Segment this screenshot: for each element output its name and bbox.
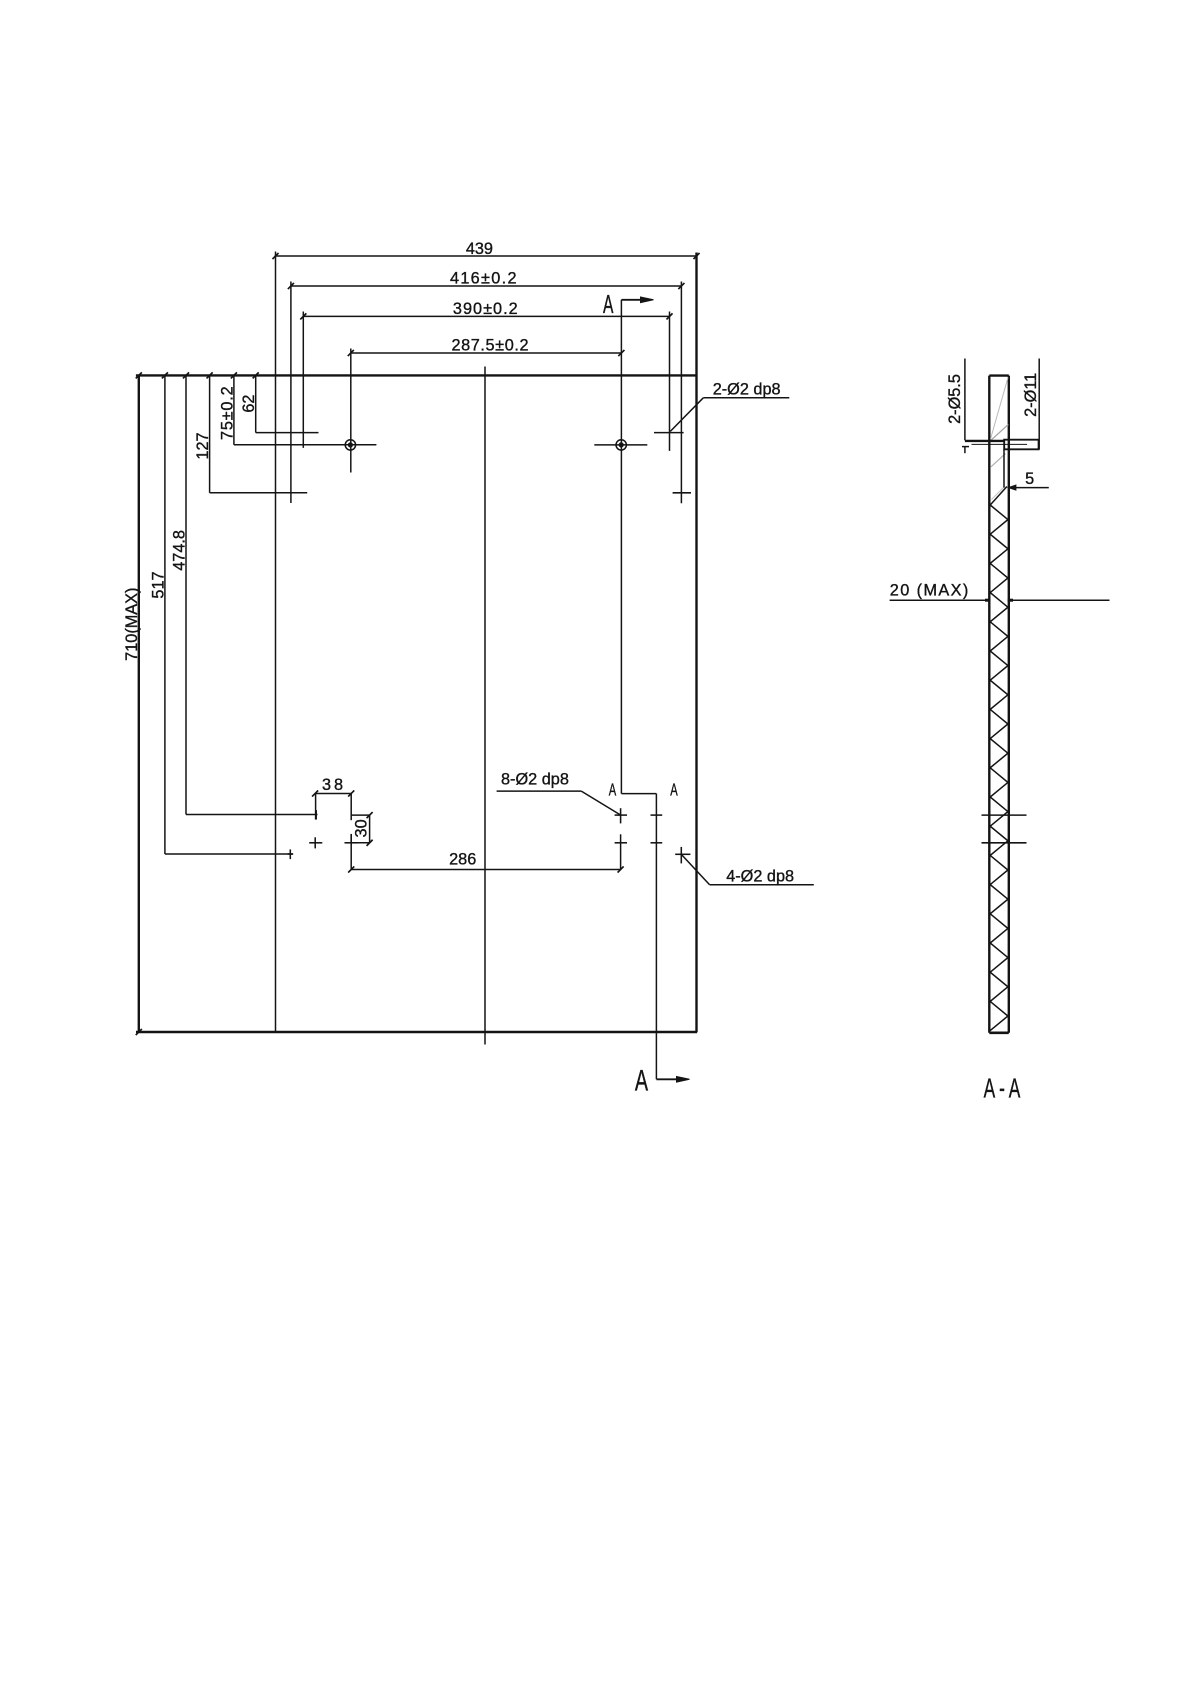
svg-text:416±0.2: 416±0.2 (450, 269, 518, 287)
svg-text:8-Ø2 dp8: 8-Ø2 dp8 (501, 771, 569, 789)
svg-text:A: A (635, 1065, 648, 1098)
svg-text:286: 286 (449, 851, 476, 869)
svg-text:4-Ø2 dp8: 4-Ø2 dp8 (726, 867, 794, 885)
svg-text:75±0.2: 75±0.2 (218, 386, 236, 440)
svg-text:287.5±0.2: 287.5±0.2 (451, 336, 529, 354)
svg-text:2-Ø5.5: 2-Ø5.5 (946, 374, 964, 424)
svg-text:A - A: A - A (984, 1072, 1021, 1103)
svg-text:A: A (670, 781, 678, 800)
svg-text:20 (MAX): 20 (MAX) (890, 581, 970, 599)
svg-text:A: A (609, 781, 617, 800)
svg-text:38: 38 (322, 776, 346, 794)
svg-text:710(MAX): 710(MAX) (123, 588, 141, 661)
svg-text:2-Ø11: 2-Ø11 (1022, 373, 1040, 417)
svg-text:62: 62 (240, 395, 258, 413)
svg-text:439: 439 (466, 240, 493, 258)
svg-text:127: 127 (194, 432, 212, 459)
svg-text:517: 517 (149, 571, 167, 598)
svg-text:2-Ø2 dp8: 2-Ø2 dp8 (713, 381, 781, 399)
svg-text:A: A (603, 290, 614, 319)
svg-text:5: 5 (1025, 470, 1034, 488)
svg-text:30: 30 (352, 819, 370, 837)
svg-text:390±0.2: 390±0.2 (453, 300, 519, 318)
svg-text:474.8: 474.8 (171, 530, 189, 571)
